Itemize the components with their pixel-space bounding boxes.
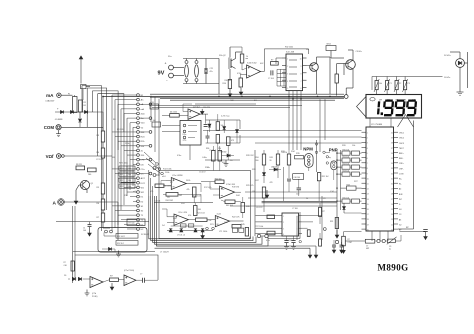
svg-text:1k: 1k [246, 56, 248, 58]
svg-text:C? 104: C? 104 [268, 78, 274, 80]
wire [104, 235, 116, 237]
resistor R15 [155, 184, 164, 187]
svg-text:R10: R10 [223, 83, 226, 85]
svg-text:R20 10k: R20 10k [343, 149, 350, 151]
resistor R3 [101, 131, 104, 142]
svg-text:REF-: REF- [399, 158, 404, 160]
svg-text:COM: COM [44, 125, 55, 130]
diode D14 [72, 277, 75, 280]
wire [56, 221, 149, 223]
wire [315, 246, 317, 252]
resistor R30 [170, 114, 180, 118]
svg-text:+: + [165, 62, 167, 66]
svg-text:OSC1: OSC1 [399, 133, 404, 135]
ground [229, 89, 231, 97]
wire [206, 142, 240, 144]
svg-text:2.2M: 2.2M [348, 242, 352, 244]
wire [102, 194, 104, 199]
svg-text:1N4148: 1N4148 [271, 167, 277, 169]
wire rail [262, 200, 337, 202]
ground [58, 130, 60, 134]
wire [242, 197, 244, 203]
svg-text:C3: C3 [399, 214, 401, 216]
svg-text:14: 14 [367, 199, 369, 201]
svg-text:DH: DH [379, 100, 383, 102]
diode D10 [167, 229, 213, 231]
svg-text:9V: 9V [158, 71, 165, 77]
wire [171, 225, 203, 227]
wire LCD drive bus [413, 121, 415, 230]
svg-text:35: 35 [391, 158, 393, 160]
capacitor C12 [423, 229, 428, 231]
svg-text:TR? 100k: TR? 100k [255, 226, 263, 228]
wire [167, 216, 174, 218]
svg-text:7: 7 [367, 163, 368, 165]
svg-text:mA: mA [141, 108, 145, 111]
wire LCD left wedge [357, 97, 367, 118]
resistor R44v [194, 206, 198, 216]
diode D2 [70, 110, 73, 113]
trimmer VR5 [240, 54, 244, 63]
resistor R44 [150, 104, 159, 109]
relay box K1 [98, 228, 147, 253]
op-amp U2A [171, 178, 186, 190]
svg-text:WU4: WU4 [327, 44, 331, 46]
pins IC1 [362, 131, 367, 133]
resistor R52 [116, 241, 138, 246]
svg-text:20: 20 [367, 229, 369, 231]
svg-text:1: 1 [367, 133, 368, 135]
junction dots band A [102, 96, 104, 98]
svg-text:COM: COM [399, 173, 404, 175]
svg-text:R17 47k: R17 47k [204, 187, 211, 189]
svg-text:R?: R? [348, 239, 350, 241]
svg-text:C16: C16 [151, 102, 154, 104]
svg-text:7: 7 [297, 222, 298, 224]
svg-text:33: 33 [391, 168, 393, 170]
wire bundle vertical [149, 196, 250, 239]
svg-text:90: 90 [270, 160, 272, 162]
diode D9 [236, 130, 239, 133]
svg-text:C40 104: C40 104 [294, 177, 301, 179]
svg-text:22: 22 [391, 224, 393, 226]
svg-text:473: 473 [231, 140, 234, 142]
resistor R39b [216, 135, 220, 144]
resistor R7 [101, 213, 104, 222]
svg-text:70*6: 70*6 [183, 140, 187, 142]
trimmer VR1 [375, 81, 378, 90]
resistor R13 [335, 74, 338, 83]
transistor Q4 [346, 60, 356, 70]
svg-text:100: 100 [88, 174, 91, 176]
wire nest right [150, 96, 152, 122]
svg-text:RT 500: RT 500 [129, 223, 135, 225]
diode D12 [194, 229, 197, 232]
resistor R22 [232, 225, 241, 228]
resistor R43 [225, 200, 235, 204]
svg-text:1: 1 [287, 59, 288, 61]
svg-text:C5 472: C5 472 [199, 172, 206, 174]
capacitor C23 [297, 187, 302, 189]
svg-text:476: 476 [270, 182, 273, 184]
resistor R47b [188, 224, 194, 227]
svg-text:562k: 562k [186, 180, 190, 182]
svg-text:IN-: IN- [399, 184, 402, 186]
svg-text:R28 202: R28 202 [246, 155, 254, 157]
svg-text:IC2a LM358: IC2a LM358 [172, 175, 182, 177]
wire [282, 167, 284, 201]
op-amp U2B [220, 186, 235, 198]
op-amp U5B [247, 65, 261, 78]
svg-text:R21 10k: R21 10k [343, 156, 350, 158]
ground [225, 160, 227, 164]
svg-text:PC40): PC40) [92, 296, 98, 298]
resistor R37 [110, 278, 119, 281]
svg-text:R21: R21 [120, 174, 123, 176]
wire riser [80, 56, 82, 60]
wire [188, 219, 195, 221]
svg-text:34: 34 [391, 163, 393, 165]
display LCD1 [366, 95, 422, 119]
wire band B extras [268, 238, 300, 240]
wire [230, 46, 242, 48]
ground [89, 227, 91, 236]
svg-text:C10: C10 [296, 194, 299, 196]
resistor R45 [152, 122, 161, 127]
svg-text:17: 17 [367, 214, 369, 216]
svg-text:R8 221: R8 221 [76, 164, 82, 166]
svg-text:A: A [53, 200, 57, 206]
wire [186, 59, 188, 61]
ground [266, 190, 268, 198]
resistor R31 [335, 218, 338, 229]
svg-text:3: 3 [367, 143, 368, 145]
wire [72, 271, 74, 275]
ground [336, 230, 338, 238]
svg-text:R22 10k: R22 10k [343, 163, 350, 165]
resistor R26 [319, 239, 322, 246]
small boxes right [232, 228, 237, 232]
resistor R9 [88, 168, 97, 172]
wire [103, 280, 110, 282]
svg-text:R41 1M2: R41 1M2 [166, 200, 173, 202]
resistor R26h [267, 231, 275, 235]
svg-text:9: 9 [367, 173, 368, 175]
ground [333, 247, 335, 253]
svg-text:C9 kPa: C9 kPa [356, 51, 363, 53]
svg-text:16: 16 [367, 209, 369, 211]
svg-text:100k: 100k [165, 172, 169, 174]
svg-text:C2? 4u7: C2? 4u7 [193, 107, 200, 109]
svg-text:NPM: NPM [303, 147, 313, 152]
wire bus verticals [111, 95, 113, 231]
svg-text:36: 36 [391, 153, 393, 155]
svg-text:R1: R1 [84, 102, 86, 104]
svg-text:C? 100: C? 100 [292, 208, 298, 210]
svg-text:10k: 10k [128, 168, 131, 170]
wire [164, 185, 171, 187]
resistor R36b [218, 151, 222, 162]
resistor R42 [193, 187, 197, 197]
svg-text:23: 23 [391, 219, 393, 221]
capacitor C20 [340, 244, 344, 246]
label box K2 [127, 219, 145, 226]
multiplexer IC6 [180, 121, 201, 146]
op-amp U6A [188, 109, 200, 120]
resistor R36 [71, 261, 74, 271]
svg-text:20m: 20m [141, 113, 145, 115]
svg-text:R?: R? [64, 262, 66, 264]
svg-text:R10 682: R10 682 [225, 80, 232, 82]
resistor R8 [76, 166, 85, 170]
capacitor C17 [287, 178, 291, 180]
wire [203, 130, 362, 132]
svg-text:Q2: Q2 [223, 55, 226, 57]
svg-text:562: 562 [179, 195, 182, 197]
resistor network RN1 [119, 166, 135, 170]
resistor R27 [307, 230, 310, 237]
resistor R34 [287, 154, 290, 165]
svg-text:3: 3 [287, 73, 288, 75]
diode D17 [274, 168, 277, 171]
svg-text:S2 8642: S2 8642 [141, 234, 149, 236]
resistor R46 [271, 62, 279, 66]
wire [201, 181, 215, 183]
diode D15 [108, 247, 111, 250]
resistor R10b [239, 78, 243, 87]
svg-text:R23 10k: R23 10k [343, 170, 350, 172]
resistor R25h [267, 215, 275, 219]
svg-text:21: 21 [391, 229, 393, 231]
svg-text:9: 9 [301, 66, 302, 68]
svg-text:R49: R49 [270, 157, 273, 159]
wire [276, 57, 282, 59]
socket NPN [305, 154, 314, 168]
wire [63, 201, 118, 203]
wire [371, 231, 373, 241]
wire [240, 75, 242, 79]
svg-text:10k 100k: 10k 100k [170, 111, 177, 113]
node [335, 240, 338, 243]
svg-text:OSC3: OSC3 [399, 143, 404, 145]
resistor R5 [101, 183, 104, 194]
svg-text:B1: B1 [84, 105, 86, 107]
svg-text:10: 10 [367, 178, 369, 180]
node [377, 239, 380, 242]
capacitor C21 [204, 68, 206, 74]
svg-text:(C7a PC40): (C7a PC40) [124, 270, 134, 272]
wire [229, 69, 231, 80]
wire [114, 249, 116, 252]
svg-text:8: 8 [301, 73, 302, 75]
wire [278, 177, 289, 179]
svg-text:0.1u: 0.1u [266, 240, 270, 242]
svg-text:900: 900 [256, 160, 259, 162]
svg-text:2: 2 [287, 66, 288, 68]
capacitor C15 [284, 240, 288, 242]
svg-text:−: − [166, 79, 168, 83]
wire [459, 52, 461, 59]
svg-text:32: 32 [391, 173, 393, 175]
diode D8 [223, 127, 226, 130]
resistor R39 [216, 122, 220, 131]
resistor R33 [276, 154, 279, 165]
svg-text:11: 11 [367, 184, 369, 186]
svg-text:P3: P3 [408, 83, 410, 85]
resistor R14 [326, 46, 336, 51]
svg-text:Cx: Cx [230, 160, 232, 162]
svg-text:F1: F1 [68, 94, 70, 96]
svg-text:R20: R20 [120, 168, 123, 170]
svg-text:1k: 1k [306, 198, 308, 200]
wire mid rail [154, 202, 213, 204]
svg-text:1M: 1M [112, 157, 115, 159]
node [62, 155, 65, 158]
capacitor C22 [270, 70, 272, 75]
svg-text:R?: R? [271, 59, 273, 61]
wire [74, 112, 76, 114]
svg-text:4: 4 [283, 234, 284, 236]
ground [240, 88, 242, 95]
ground [457, 91, 464, 93]
svg-text:10k: 10k [352, 145, 355, 147]
resistor R6 [101, 199, 104, 210]
svg-text:15: 15 [367, 204, 369, 206]
svg-text:C2 104: C2 104 [96, 159, 103, 161]
svg-text:5: 5 [297, 234, 298, 236]
resistor R28 [262, 154, 265, 165]
svg-text:10: 10 [300, 59, 302, 61]
svg-text:10k: 10k [128, 186, 131, 188]
resistor R35 [295, 156, 304, 159]
ground [118, 251, 120, 255]
capacitor C10 [365, 239, 375, 243]
op-amp U7C [90, 277, 103, 288]
wire [61, 126, 103, 128]
svg-text:R34: R34 [347, 184, 350, 186]
wire grid left of IC5 [277, 68, 286, 70]
wire bundle D [96, 246, 322, 248]
wire [189, 145, 191, 160]
svg-text:2m: 2m [141, 118, 144, 120]
svg-text:220k: 220k [125, 143, 129, 145]
svg-text:VΩf: VΩf [46, 154, 54, 159]
wire [102, 227, 104, 229]
resistor R51 [116, 234, 138, 239]
resistor pairs left of IC1 [342, 151, 350, 155]
svg-text:2: 2 [367, 138, 368, 140]
svg-text:31: 31 [391, 178, 393, 180]
op-amp IC5 [286, 54, 303, 91]
capacitor C19 [332, 244, 336, 246]
svg-text:26: 26 [391, 204, 393, 206]
node [257, 234, 260, 237]
svg-text:A3: A3 [399, 218, 401, 221]
wire [411, 76, 413, 78]
wire cluster frame [159, 171, 251, 239]
ground [343, 246, 345, 254]
svg-text:24: 24 [391, 214, 393, 216]
diode D1 [55, 111, 96, 113]
node [323, 151, 325, 153]
svg-text:R51 1k2: R51 1k2 [322, 176, 329, 178]
svg-text:R43 104: R43 104 [226, 205, 233, 207]
svg-text:R19 1M: R19 1M [232, 187, 239, 189]
svg-text:R22: R22 [120, 180, 123, 182]
diode D3 [84, 110, 87, 113]
ground [315, 252, 317, 258]
capacitor C18 [142, 278, 144, 283]
ground [341, 247, 343, 253]
svg-text:2.2V max: 2.2V max [221, 116, 229, 118]
svg-text:39: 39 [391, 138, 393, 140]
svg-text:5: 5 [287, 88, 288, 90]
capacitor C14 [206, 135, 210, 137]
ground [202, 232, 204, 239]
svg-text:104k: 104k [246, 206, 250, 208]
resistor R21 [196, 218, 208, 222]
svg-text:12: 12 [367, 189, 369, 191]
svg-text:47u: 47u [210, 71, 213, 73]
svg-text:29: 29 [391, 189, 393, 191]
svg-text:1: 1 [283, 216, 284, 218]
svg-text:4.148WB: 4.148WB [55, 119, 63, 121]
ground [86, 290, 88, 294]
wire bus nest [81, 86, 83, 113]
node bus A end [344, 95, 348, 99]
op-amp U7A [174, 214, 188, 225]
diode D7 [208, 124, 211, 127]
svg-text:RP2 100k: RP2 100k [119, 163, 128, 165]
wire [336, 150, 338, 236]
resistor R10 [228, 80, 231, 89]
svg-text:13: 13 [367, 194, 369, 196]
svg-text:IC2c L324: IC2c L324 [178, 212, 187, 214]
svg-text:IC6a: IC6a [183, 134, 187, 136]
wire [319, 203, 321, 208]
svg-text:M890G: M890G [378, 263, 409, 273]
svg-text:D9: D9 [64, 275, 66, 277]
fuse F1 [73, 97, 78, 113]
wire [255, 215, 282, 217]
svg-text:CRF+: CRF+ [399, 163, 405, 165]
svg-text:4: 4 [287, 81, 288, 83]
svg-text:IC5 L358: IC5 L358 [286, 52, 295, 54]
ground [201, 109, 203, 115]
svg-text:LT 101 x4: LT 101 x4 [177, 234, 185, 236]
svg-text:47k: 47k [187, 189, 190, 191]
diode D13 [263, 173, 266, 176]
svg-text:mA: mA [46, 93, 54, 98]
svg-text:(C7b: (C7b [92, 293, 96, 295]
svg-text:10k: 10k [128, 180, 131, 182]
wire [173, 67, 184, 69]
svg-text:R23: R23 [120, 186, 123, 188]
svg-text:4: 4 [367, 148, 368, 150]
svg-text:C7 104: C7 104 [155, 200, 161, 202]
svg-text:IC1 7106M: IC1 7106M [371, 124, 382, 126]
ground [75, 196, 77, 204]
wire arrow to LCD [406, 115, 414, 128]
svg-text:R16 220k: R16 220k [163, 186, 172, 188]
wire IC5 outputs [288, 91, 290, 150]
trimmer VR3 [395, 81, 398, 90]
wire [319, 99, 321, 152]
diode D6 [343, 207, 346, 210]
box C40 [293, 174, 304, 180]
trimmer VR2 [386, 81, 389, 90]
wire [302, 215, 322, 217]
